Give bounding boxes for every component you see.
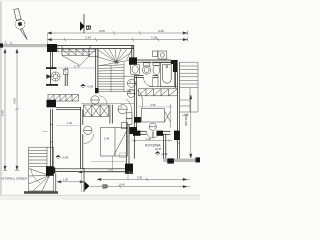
svg-text:1.50: 1.50 <box>63 177 69 181</box>
bathroom door leaf and arc <box>144 77 153 86</box>
bottom dim line long 2 <box>90 185 190 188</box>
veranda side walls <box>134 134 166 158</box>
bottom wall corner poche left <box>49 167 55 173</box>
bottom exterior wall double <box>55 169 127 172</box>
kitchen dim line <box>138 106 172 109</box>
level diamond left room <box>56 155 69 159</box>
railing strip B <box>84 105 109 117</box>
bathroom right wall double <box>175 72 177 160</box>
kitchen table <box>142 109 165 123</box>
photo edge top <box>0 0 200 2</box>
hall door bubble 1 <box>128 79 136 87</box>
wc room top wall <box>46 67 57 69</box>
left exterior wall upper double <box>50 45 52 67</box>
closet box right of wardrobe <box>89 49 98 57</box>
north arrow <box>11 8 29 42</box>
svg-text:+3.08: +3.08 <box>182 114 189 117</box>
svg-text:+3.08: +3.08 <box>161 152 168 156</box>
bathroom sink <box>131 64 140 74</box>
tub partition line <box>157 76 159 87</box>
boundary band black end left <box>0 43 3 47</box>
svg-text:1.40: 1.40 <box>67 121 73 125</box>
exterior entry stair bottom-left <box>29 147 54 191</box>
bathroom wc toilet <box>142 63 150 74</box>
svg-text:+3.08: +3.08 <box>62 155 69 159</box>
entry stair black landing <box>46 166 54 176</box>
svg-text:9.60: 9.60 <box>1 110 5 116</box>
bathroom south wall double <box>134 76 158 78</box>
interior wall lower-left double <box>80 107 82 169</box>
window marks on left wall lower <box>50 125 52 142</box>
window ticks <box>58 45 90 51</box>
wall stub below building <box>55 173 57 191</box>
right exterior edge line <box>179 62 181 159</box>
kitchen south wall black left <box>133 131 140 136</box>
balcony door mark 2 <box>126 119 132 124</box>
stair left wall double <box>96 49 98 93</box>
svg-text:ΑΣΤΟΡΙΑ Δ. ΩΡΩΒΟΥ: ΑΣΤΟΡΙΑ Δ. ΩΡΩΒΟΥ <box>1 177 28 181</box>
right vertical dim line <box>190 95 192 158</box>
wall under strip A <box>56 107 81 109</box>
vertical ref line left <box>81 173 83 192</box>
wardrobe top bedroom <box>62 49 89 55</box>
left vertical dimension line 1 <box>3 49 7 170</box>
kitchen south wall black right <box>157 131 164 136</box>
svg-text:1.94: 1.94 <box>85 36 91 40</box>
kitchen south wall left segment <box>137 131 147 134</box>
railing strip A left <box>48 95 79 101</box>
veranda level diamond <box>155 151 168 156</box>
door arc lower-left room <box>84 134 94 144</box>
bottom dim line short <box>57 181 84 183</box>
level diamond bedroom1 <box>81 84 94 89</box>
kitchen door bubble <box>149 123 156 130</box>
svg-text:22.15: 22.15 <box>155 148 162 151</box>
background sheet <box>0 0 200 200</box>
bathroom top wall double <box>134 60 171 62</box>
svg-text:5.30: 5.30 <box>137 175 143 179</box>
hall small door arc left <box>99 96 107 104</box>
bottom dim line mid room <box>78 171 133 173</box>
kitchen door arc from hall <box>137 90 143 108</box>
kitchen railing strip C <box>139 89 178 96</box>
bed pillow box <box>122 123 128 129</box>
bottom wall corner poche right <box>125 164 133 174</box>
wall junction black block <box>130 127 137 134</box>
photo edge bottom <box>0 195 200 200</box>
bathroom corner poche top-right <box>171 60 178 72</box>
bathroom floor bottom edge <box>149 86 177 88</box>
veranda dim line <box>132 139 172 142</box>
svg-text:2.05: 2.05 <box>99 29 105 33</box>
left wall wc segment <box>49 69 51 85</box>
washing machine box <box>158 51 167 59</box>
bedroom2 east wall double <box>127 119 129 169</box>
boundary tick marks <box>5 42 12 45</box>
wc door window mark <box>63 70 68 75</box>
vertical ref line right <box>127 174 129 180</box>
right exterior stair <box>180 62 198 112</box>
section marker B top <box>80 14 93 33</box>
wc room bottom wall stub <box>46 84 58 86</box>
street curb dark band <box>24 191 58 194</box>
kitchen south wall right segment <box>159 131 170 134</box>
entry stair walk arc <box>31 169 40 184</box>
bathtub <box>161 63 175 87</box>
svg-text:5.40: 5.40 <box>120 182 126 186</box>
bottom dim line long 1 <box>97 178 190 181</box>
wall corner poche top-left <box>47 44 57 52</box>
kitchen double door arcs <box>147 132 159 139</box>
inner step box <box>120 153 126 158</box>
svg-text:2.98: 2.98 <box>146 137 152 141</box>
black block on bottom band mid <box>167 158 174 163</box>
kitchen side line <box>169 104 171 128</box>
wc right wall double <box>65 68 67 87</box>
kitchen chair diagonals <box>165 111 171 122</box>
wardrobe door swing V <box>62 49 96 66</box>
top boundary gray wall band <box>2 44 49 47</box>
bedroom2 door bubble <box>118 105 127 114</box>
door bubble lower-left room <box>84 126 92 134</box>
boiler box small <box>153 51 158 57</box>
bedroom2 door arc and leaf <box>126 99 131 124</box>
stair right wall double <box>132 45 134 60</box>
svg-text:3.35: 3.35 <box>108 168 114 172</box>
stair left wall black end <box>95 88 99 93</box>
stair landing edge line <box>124 75 135 77</box>
black square poche left <box>47 100 57 108</box>
dim line left room <box>56 125 79 127</box>
photo edge left <box>0 0 2 200</box>
hall bubble left <box>91 96 99 104</box>
black block on bottom band right <box>196 157 201 162</box>
bathroom wall tile hatch <box>141 59 168 63</box>
svg-text:Κ: Κ <box>129 90 131 94</box>
kitchen right wall black block <box>174 131 180 140</box>
hall door bubble 2 <box>127 90 135 98</box>
left vertical dimension line 2 <box>15 49 19 170</box>
svg-text:B: B <box>84 25 93 31</box>
svg-text:3.18: 3.18 <box>151 36 157 40</box>
dim connector tick left <box>47 33 49 44</box>
stair shaft black block <box>129 57 137 64</box>
bedroom bottom dim line <box>58 67 95 69</box>
section marker B bottom <box>84 168 108 192</box>
hall-bathroom wall double <box>134 76 136 135</box>
hall south edge line <box>81 103 134 105</box>
left exterior wall lower double <box>50 109 52 167</box>
svg-text:2.96: 2.96 <box>151 103 157 107</box>
svg-text:1.40: 1.40 <box>104 137 110 141</box>
right edge tick <box>176 141 179 144</box>
window sill line top bedroom <box>57 51 96 53</box>
svg-text:4.50: 4.50 <box>13 98 17 104</box>
svg-text:Λ: Λ <box>129 80 131 84</box>
svg-text:+3.08: +3.08 <box>87 85 94 89</box>
stair shaft diagonal <box>127 46 134 60</box>
wc fixture daisy <box>47 72 61 81</box>
inner vertical line <box>112 156 114 169</box>
interior staircase treads <box>98 63 131 92</box>
inner floor line bedroom2 <box>91 161 127 163</box>
svg-text:Π: Π <box>120 106 122 110</box>
top exterior wall double line <box>50 45 134 48</box>
bedroom2 door stub wall <box>110 105 112 124</box>
balcony door marks on east wall <box>126 113 132 119</box>
bottom boundary gray wall band <box>163 159 200 162</box>
top dimension line 2 <box>48 37 189 41</box>
top dimension line 1 <box>48 31 189 35</box>
svg-text:3.40: 3.40 <box>158 29 164 33</box>
wall tick left <box>43 131 48 133</box>
bathroom bidet <box>153 63 160 75</box>
hall wall black block <box>134 117 141 123</box>
bed bedroom2 <box>101 128 128 157</box>
interior staircase winder fan <box>98 49 132 66</box>
